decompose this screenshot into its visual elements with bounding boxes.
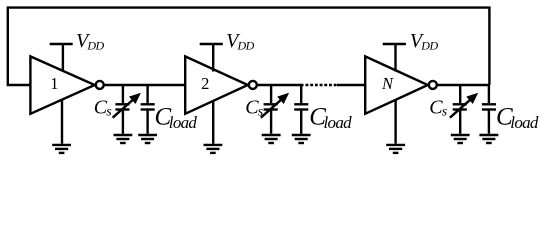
inverter U1 bbox=[30, 56, 94, 113]
svg-text:s: s bbox=[258, 104, 264, 119]
output bubble of U2 bbox=[249, 81, 257, 89]
capacitor Cload2 bbox=[294, 85, 308, 134]
wire: UN output node to right feedback riser bbox=[437, 84, 490, 86]
svg-text:DD: DD bbox=[86, 39, 104, 53]
svg-text:s: s bbox=[106, 104, 112, 119]
svg-text:DD: DD bbox=[237, 39, 255, 53]
output bubble of U1 bbox=[96, 81, 104, 89]
capacitor CsN (variable) bbox=[450, 85, 478, 134]
VDD symbol of U2 bbox=[200, 44, 223, 72]
output bubble of UN bbox=[429, 81, 437, 89]
ground (Cs1) bbox=[114, 135, 133, 143]
ground (Cs2) bbox=[262, 135, 281, 143]
inverter U2 bbox=[185, 56, 248, 113]
svg-text:load: load bbox=[324, 113, 353, 132]
ground (CsN) bbox=[451, 135, 470, 143]
svg-text:s: s bbox=[442, 104, 448, 119]
ground (Cload2) bbox=[292, 135, 311, 143]
label VDD (stage 2) bbox=[226, 30, 255, 53]
ground (UN supply) bbox=[386, 99, 405, 153]
label VDD (stage 1) bbox=[76, 30, 105, 53]
label Cs (stage 2) bbox=[245, 97, 263, 120]
svg-text:1: 1 bbox=[50, 74, 58, 93]
label 1 (stage number) bbox=[50, 74, 58, 93]
label Cload (stage 2) bbox=[309, 104, 352, 133]
label Cload (stage 1) bbox=[155, 104, 198, 133]
label Cload (stage N) bbox=[496, 104, 539, 133]
wire: into stage N input bbox=[337, 84, 365, 86]
svg-text:2: 2 bbox=[201, 74, 209, 93]
capacitor CloadN bbox=[482, 85, 496, 134]
inverter UN bbox=[365, 56, 428, 113]
wire: top feedback loop from stage N output to stage 1 input bbox=[8, 8, 490, 85]
label N (stage number) bbox=[381, 74, 394, 93]
label VDD (stage N) bbox=[410, 30, 439, 53]
label 2 (stage number) bbox=[201, 74, 209, 93]
capacitor Cload1 bbox=[141, 85, 155, 134]
svg-text:N: N bbox=[381, 74, 394, 93]
svg-text:DD: DD bbox=[420, 39, 438, 53]
VDD symbol of U1 bbox=[50, 44, 73, 72]
svg-text:load: load bbox=[169, 113, 198, 132]
ground (U1 supply) bbox=[52, 99, 71, 153]
wire: dotted continuation between stage 2 and stage N bbox=[306, 84, 338, 86]
capacitor Cs2 (variable) bbox=[261, 85, 289, 134]
ground (U2 supply) bbox=[204, 100, 223, 153]
label Cs (stage 1) bbox=[94, 97, 113, 120]
capacitor Cs1 (variable) bbox=[113, 85, 141, 134]
wire: U1 output node to U2 input bbox=[104, 84, 186, 86]
label Cs (stage N) bbox=[429, 97, 448, 120]
VDD symbol of UN bbox=[383, 44, 406, 72]
ground (CloadN) bbox=[479, 135, 498, 143]
ground (Cload1) bbox=[138, 135, 157, 143]
svg-text:load: load bbox=[510, 113, 539, 132]
wire: U2 output node bbox=[257, 84, 304, 86]
